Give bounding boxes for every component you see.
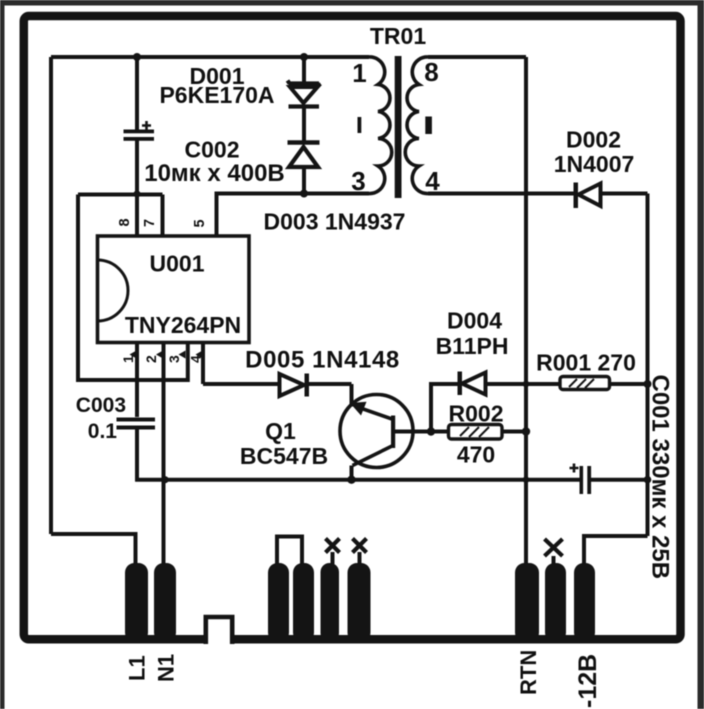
wire C003 column upper [135, 344, 139, 417]
IC U001 box [98, 236, 250, 343]
svg-text:C001 330мк x 25В: C001 330мк x 25В [647, 375, 674, 580]
junction node bias row [133, 190, 140, 197]
X mark pin C [326, 539, 340, 553]
junction node R002 RTN [522, 427, 530, 435]
transistor Q1 emitter diagonal [356, 407, 392, 420]
diode D005 bar [305, 374, 310, 397]
svg-text:P6KE170A: P6KE170A [159, 82, 274, 108]
X mark right pin [545, 539, 563, 556]
junction node D004 RTN cross [523, 381, 530, 388]
diode D001 zener bar [288, 81, 321, 87]
svg-text:L1: L1 [125, 655, 150, 681]
wire D003 cathode [302, 169, 306, 194]
connector pin N1 [154, 563, 176, 642]
wire D005 to Q1 [309, 382, 352, 386]
wire RTN vertical [524, 57, 528, 564]
junction node D003 pin5 [300, 190, 308, 198]
svg-text:10мк x 400В: 10мк x 400В [144, 160, 285, 187]
svg-text:5: 5 [192, 219, 208, 227]
wire bias row [78, 193, 163, 197]
svg-text:1N4007: 1N4007 [554, 151, 635, 177]
svg-text:2: 2 [143, 355, 159, 363]
svg-text:4: 4 [425, 166, 440, 196]
svg-text:R002: R002 [449, 401, 504, 427]
wire pin8 stub [135, 195, 139, 237]
wire D001-D003 link [302, 107, 306, 141]
svg-text:C003: C003 [76, 394, 126, 417]
transformer TR01 right winding [405, 57, 428, 194]
junction node Q1 collector rail [347, 476, 355, 484]
wire R002 right [502, 430, 526, 434]
U001 pin 4 tick [196, 351, 203, 359]
svg-text:3: 3 [351, 166, 365, 196]
wire D004 right [486, 382, 526, 386]
diode D003 triangle [289, 147, 318, 167]
resistor R001 body [560, 377, 610, 390]
diode D004 triangle [462, 373, 486, 395]
wire top rail [51, 55, 369, 59]
connector notch [206, 617, 232, 644]
connector pin RTN [515, 563, 539, 642]
wire D004 left jog [431, 384, 458, 432]
junction node top rail D001 [300, 53, 308, 61]
transformer left winding tap mark [358, 117, 362, 133]
svg-text:N1: N1 [154, 654, 179, 682]
capacitor C001 left plate [580, 466, 584, 494]
junction node N1 rail cross [161, 476, 168, 483]
svg-text:8: 8 [117, 218, 133, 226]
U001 pin 3 tick [179, 351, 186, 359]
capacitor C002 top plate [124, 130, 155, 134]
X mark pin D [353, 539, 367, 553]
wire secondary bracket [277, 537, 302, 565]
wire pin4 EN stub [201, 344, 205, 384]
wire -12V vertical [646, 194, 650, 537]
svg-text:D003 1N4937: D003 1N4937 [264, 209, 406, 235]
junction node C001 right [644, 476, 652, 484]
svg-text:TNY264PN: TNY264PN [125, 312, 241, 338]
diode D001 triangle [290, 87, 318, 103]
svg-text:3: 3 [166, 355, 182, 363]
capacitor C002 plus [142, 121, 151, 130]
svg-text:RTN: RTN [516, 650, 541, 695]
connector notch whiteout [206, 628, 232, 645]
junction node top rail C002 [133, 53, 141, 61]
U001 pin 1 tick [130, 351, 137, 359]
wire C003 column lower [135, 430, 139, 482]
wire N1 column [162, 344, 166, 564]
diode D002 triangle [579, 184, 601, 207]
svg-text:-12В: -12В [574, 654, 602, 708]
capacitor C002 bottom plate [124, 137, 155, 141]
wire to D005 [203, 382, 280, 386]
wire C002 column lower [135, 141, 139, 197]
junction node R001 right [644, 380, 652, 388]
svg-text:B11PH: B11PH [436, 333, 509, 359]
capacitor C003 top plate [117, 418, 156, 422]
wire Q1 base to R002 [395, 430, 449, 434]
U001 pin 2 tick [156, 351, 163, 359]
resistor R002 body [449, 425, 503, 440]
diode D001 lower bar [289, 104, 320, 108]
svg-text:U001: U001 [150, 251, 205, 277]
wire pin5 drain [217, 194, 370, 237]
svg-text:1: 1 [352, 58, 366, 88]
capacitor C003 bottom plate [117, 426, 156, 430]
wire Q1 emitter lead [350, 384, 354, 407]
wire D001 anode [302, 57, 306, 83]
capacitor C001 plus [570, 464, 579, 473]
connector pin L1 [125, 563, 148, 642]
svg-text:R001 270: R001 270 [536, 350, 636, 376]
wire ground rail left [135, 478, 579, 482]
connector pin sec4 [348, 563, 371, 642]
connector pin sec2 [293, 563, 314, 642]
wire X stem pin D [358, 552, 362, 564]
connector pin mid [545, 563, 566, 642]
transistor Q1 circle [340, 395, 413, 468]
svg-text:D004: D004 [447, 308, 502, 334]
wire ground rail right [591, 478, 648, 482]
wire pin4 row right [601, 192, 648, 196]
wire C002 column upper [135, 57, 139, 130]
wire left boundary [49, 57, 53, 534]
wire pin7 stub [161, 195, 165, 237]
wire -12V jog to pin [584, 536, 648, 564]
svg-text:8: 8 [424, 57, 438, 87]
svg-text:D002: D002 [566, 127, 621, 153]
transistor Q1 collector diagonal [353, 446, 393, 466]
wire X stem mid right pin [552, 556, 556, 564]
svg-text:Q1: Q1 [265, 418, 296, 444]
svg-text:470: 470 [457, 442, 495, 468]
junction node D004 R002 [427, 427, 435, 435]
transformer right winding tap mark [425, 117, 432, 135]
wire Q1 collector lead [350, 466, 354, 480]
svg-text:TR01: TR01 [370, 23, 426, 49]
diode D004 bar [458, 372, 463, 396]
wire pin8 top right [428, 55, 526, 59]
capacitor C001 right plate [587, 466, 591, 494]
wire U001 source loop [78, 195, 188, 381]
transformer TR01 core [395, 56, 402, 198]
wire R001 left [526, 382, 560, 386]
svg-text:BC547B: BC547B [240, 443, 328, 469]
wire to L1 pin [51, 534, 136, 567]
wire pin4 row left [428, 192, 575, 196]
svg-text:D005 1N4148: D005 1N4148 [245, 347, 400, 374]
connector pin sec1 [268, 563, 289, 642]
svg-text:0.1: 0.1 [88, 420, 118, 443]
transformer TR01 left winding [369, 57, 392, 194]
diode D002 bar [574, 183, 579, 209]
wire R001 right [610, 382, 648, 386]
transistor Q1 emitter arrow [350, 402, 367, 416]
junction node RTN rail cross [523, 476, 530, 483]
wire X stem pin C [331, 552, 335, 564]
connector pin sec3 [321, 563, 340, 642]
diode D005 triangle [280, 374, 305, 396]
connector pin -12V [574, 563, 595, 642]
svg-text:7: 7 [142, 219, 158, 227]
diode D003 bar [288, 140, 320, 145]
transistor Q1 base bar [391, 416, 395, 449]
svg-text:C002: C002 [185, 137, 240, 163]
IC U001 notch [98, 260, 128, 321]
